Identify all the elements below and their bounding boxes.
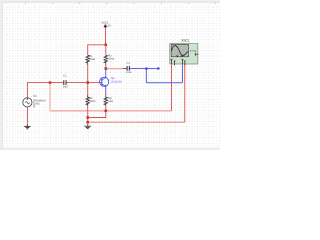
node: VCC rail junction	[105, 44, 108, 47]
capacitor C1	[64, 80, 66, 85]
wire: blue stub to terminator	[146, 68, 158, 70]
AC source V1	[23, 98, 32, 107]
VCC1 power symbol	[104, 24, 107, 28]
wire: Q1 emitter to R4 top	[105, 93, 107, 95]
wire: R3 bottom to collector junction	[105, 65, 107, 69]
wire: R4 bottom through A line, return to ground node	[88, 107, 106, 118]
wire: scope A tap vertical	[49, 83, 51, 111]
svg-text:10kΩ: 10kΩ	[89, 100, 95, 103]
node: A line / emitter return crossing	[105, 110, 108, 113]
wire: V1 bottom to ground	[26, 107, 28, 125]
label V1	[33, 94, 46, 109]
node: ground return junction	[86, 121, 89, 124]
svg-text:10µF: 10µF	[63, 86, 69, 89]
svg-text:10kΩ: 10kΩ	[108, 57, 114, 60]
node: collector output junction	[105, 67, 108, 70]
wire: C3 left lead	[123, 68, 128, 70]
svg-text:12V: 12V	[106, 25, 111, 28]
ground GND2 (under R2)	[85, 125, 91, 128]
wire: scope B- vertical	[184, 65, 186, 123]
wire: scope B+ vertical (blue)	[181, 65, 183, 83]
svg-text:10µF: 10µF	[126, 71, 132, 74]
transistor Q1	[100, 69, 109, 94]
capacitor C3	[127, 66, 129, 71]
oscilloscope XSC1	[170, 44, 199, 66]
wire: collector output to C3 (pale)	[106, 68, 123, 70]
svg-text:XSC1: XSC1	[181, 39, 190, 43]
resistor R3	[104, 55, 107, 64]
wire: R1 bottom to base junction	[87, 65, 89, 98]
wire: VCC rail to R1 and R3	[88, 45, 106, 56]
node: emitter return junction	[86, 116, 89, 119]
wire: VCC drop	[105, 27, 107, 44]
wire: blue horizontal to scope B+	[146, 82, 182, 84]
wire: blue vertical from junction	[145, 69, 147, 83]
wire: R2 bottom to ground	[87, 107, 89, 126]
svg-text:C3: C3	[126, 62, 130, 65]
svg-text:C1: C1	[63, 75, 67, 78]
svg-text:30kΩ: 30kΩ	[89, 58, 95, 61]
svg-text:Ext Trig: Ext Trig	[190, 50, 197, 53]
resistor R2	[86, 95, 89, 106]
wire: base line C1 to Q1 base	[66, 82, 100, 84]
wire: ground return to scope B-	[88, 121, 185, 123]
resistor R4	[104, 95, 107, 106]
wire: scope A horizontal line	[50, 110, 172, 112]
node: base/A tap junction	[49, 81, 52, 84]
svg-text:2N2222A: 2N2222A	[111, 80, 122, 83]
ground GND1 (under V1)	[24, 125, 30, 129]
wire: V1 top riser and base line to C1	[27, 83, 63, 98]
wire: C3 right lead to junction (blue)	[129, 68, 146, 70]
resistor R1	[86, 55, 89, 64]
node: base/divider junction	[86, 81, 89, 84]
wire: scope A+ vertical	[171, 65, 173, 111]
node: blue wire end square	[157, 67, 159, 69]
node: C3 output junction (blue)	[145, 68, 147, 70]
svg-text:1kΩ: 1kΩ	[108, 100, 113, 103]
